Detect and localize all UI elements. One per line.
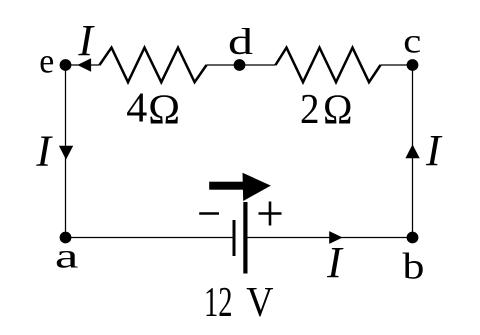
svg-text:2: 2 xyxy=(300,87,320,133)
resistor R1 zigzag xyxy=(100,48,207,83)
wire top-left: node e to resistor R1 xyxy=(66,64,100,66)
node c junction dot xyxy=(407,59,419,71)
svg-text:b: b xyxy=(403,246,425,287)
node e junction dot xyxy=(60,59,72,71)
battery V1 negative plate (short) xyxy=(233,220,236,256)
svg-text:Ω: Ω xyxy=(148,87,180,133)
svg-text:a: a xyxy=(55,237,79,276)
svg-text:4: 4 xyxy=(126,86,147,132)
svg-text:V: V xyxy=(246,280,273,326)
svg-text:I: I xyxy=(326,238,344,287)
battery plus sign xyxy=(259,202,282,226)
resistor R2 zigzag xyxy=(276,48,381,83)
wire top-middle: R1 to R2 through node d xyxy=(207,64,276,66)
current arrowhead (left) on top wire xyxy=(77,58,91,72)
wire left side: node e to node a xyxy=(65,65,67,238)
node b junction dot xyxy=(407,232,419,244)
battery minus sign xyxy=(199,212,219,215)
wire right side: node c to node b xyxy=(412,65,414,238)
wire bottom-left: node a to battery negative plate xyxy=(66,237,233,239)
emf direction thick arrow above battery xyxy=(209,173,271,201)
current arrowhead (up) on right wire xyxy=(405,144,419,158)
wire top-right: R2 to node c xyxy=(381,64,413,66)
node d junction dot xyxy=(234,59,246,71)
svg-text:I: I xyxy=(425,126,443,175)
battery V1 positive plate (tall) xyxy=(243,202,247,274)
svg-text:Ω: Ω xyxy=(323,87,353,133)
svg-text:12: 12 xyxy=(204,280,233,326)
svg-text:c: c xyxy=(403,22,421,61)
wire bottom-right: battery positive plate to node b xyxy=(248,237,413,239)
svg-text:I: I xyxy=(77,16,95,65)
current arrowhead (down) on left wire xyxy=(59,146,73,160)
current arrowhead (right) on bottom wire xyxy=(329,231,342,244)
svg-text:d: d xyxy=(228,22,254,63)
node a junction dot xyxy=(60,232,72,244)
svg-text:I: I xyxy=(35,127,53,176)
svg-text:e: e xyxy=(39,42,54,81)
